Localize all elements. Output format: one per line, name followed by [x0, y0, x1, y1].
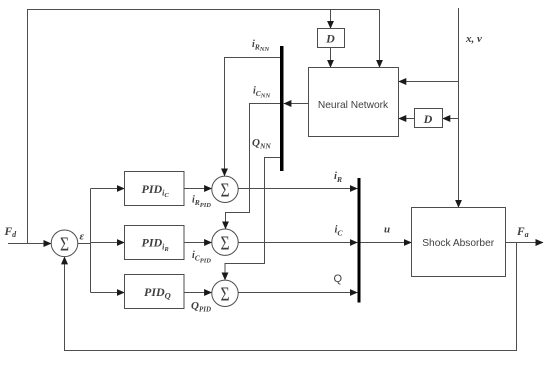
svg-text:iC: iC: [335, 225, 344, 238]
svg-text:Σ: Σ: [220, 179, 229, 201]
PID_ic block: [125, 172, 185, 206]
wire top feedback left vertical: [27, 10, 29, 244]
summing junction left: [51, 230, 78, 257]
wire epsilon to PID_ic: [91, 188, 125, 190]
wire branch down into D1: [330, 10, 332, 29]
wire feedback F_a to left sum: [65, 243, 517, 351]
wire epsilon branch: [78, 189, 91, 293]
svg-text:Fa: Fa: [516, 226, 529, 239]
wire x,v to NN right input: [399, 81, 459, 83]
neural network block U1: [309, 68, 399, 137]
svg-text:Shock Absorber: Shock Absorber: [422, 238, 495, 249]
svg-text:Q: Q: [334, 273, 343, 285]
svg-text:ε: ε: [80, 231, 85, 243]
svg-text:iCPID: iCPID: [192, 250, 211, 264]
svg-text:Neural Network: Neural Network: [318, 100, 389, 111]
svg-text:Σ: Σ: [220, 232, 229, 254]
wire PID_iR to middle sum: [184, 242, 212, 244]
summing junction middle: [212, 229, 238, 255]
wire Q to mux bar: [238, 292, 357, 294]
svg-text:iCNN: iCNN: [253, 86, 270, 100]
wire Q_NN from bar to bottom sum: [225, 158, 280, 280]
wire PID_ic to top sum: [184, 188, 212, 190]
wire F_a output: [506, 242, 544, 244]
wire i_R to mux bar: [238, 188, 357, 190]
wire i_C to mux bar: [238, 242, 357, 244]
svg-text:Σ: Σ: [60, 233, 69, 255]
delay block D1: [318, 29, 345, 48]
svg-text:QNN: QNN: [252, 137, 271, 151]
wire NN output to demux bar: [284, 103, 309, 105]
wire F_d input: [8, 243, 51, 245]
wire top line to NN top right input: [379, 10, 381, 68]
delay block D2: [415, 109, 443, 128]
shock absorber block U2: [412, 208, 506, 277]
svg-text:x, v: x, v: [465, 33, 482, 45]
wire PID_Q to bottom sum: [184, 292, 212, 294]
wire u to Shock Absorber: [361, 242, 412, 244]
svg-text:Fd: Fd: [4, 226, 18, 239]
svg-text:Σ: Σ: [220, 283, 229, 305]
svg-text:D: D: [325, 32, 335, 46]
wire D1 to NN top: [330, 48, 332, 68]
mux bar node: [358, 178, 361, 303]
wire i_RNN from bar to top sum: [225, 58, 281, 176]
svg-text:iR: iR: [334, 171, 342, 184]
PID_iR block: [125, 226, 185, 260]
svg-text:iRNN: iRNN: [252, 39, 269, 53]
PID_Q block: [125, 275, 185, 309]
wire epsilon to PID_Q: [91, 292, 125, 294]
demux bar node: [280, 46, 284, 171]
svg-text:D: D: [423, 112, 433, 126]
wire x,v input vertical into Shock Absorber: [458, 8, 460, 207]
wire epsilon to PID_iR: [91, 242, 125, 244]
summing junction bottom: [212, 280, 238, 306]
svg-text:iRPID: iRPID: [192, 195, 211, 209]
svg-text:u: u: [384, 224, 390, 236]
wire i_CNN from bar to middle sum: [226, 104, 281, 229]
wire D2 to NN right input: [399, 118, 415, 120]
svg-text:QPID: QPID: [191, 300, 211, 314]
wire top feedback horizontal: [27, 9, 380, 11]
wire x,v to D2: [443, 118, 459, 120]
summing junction top: [212, 176, 238, 202]
